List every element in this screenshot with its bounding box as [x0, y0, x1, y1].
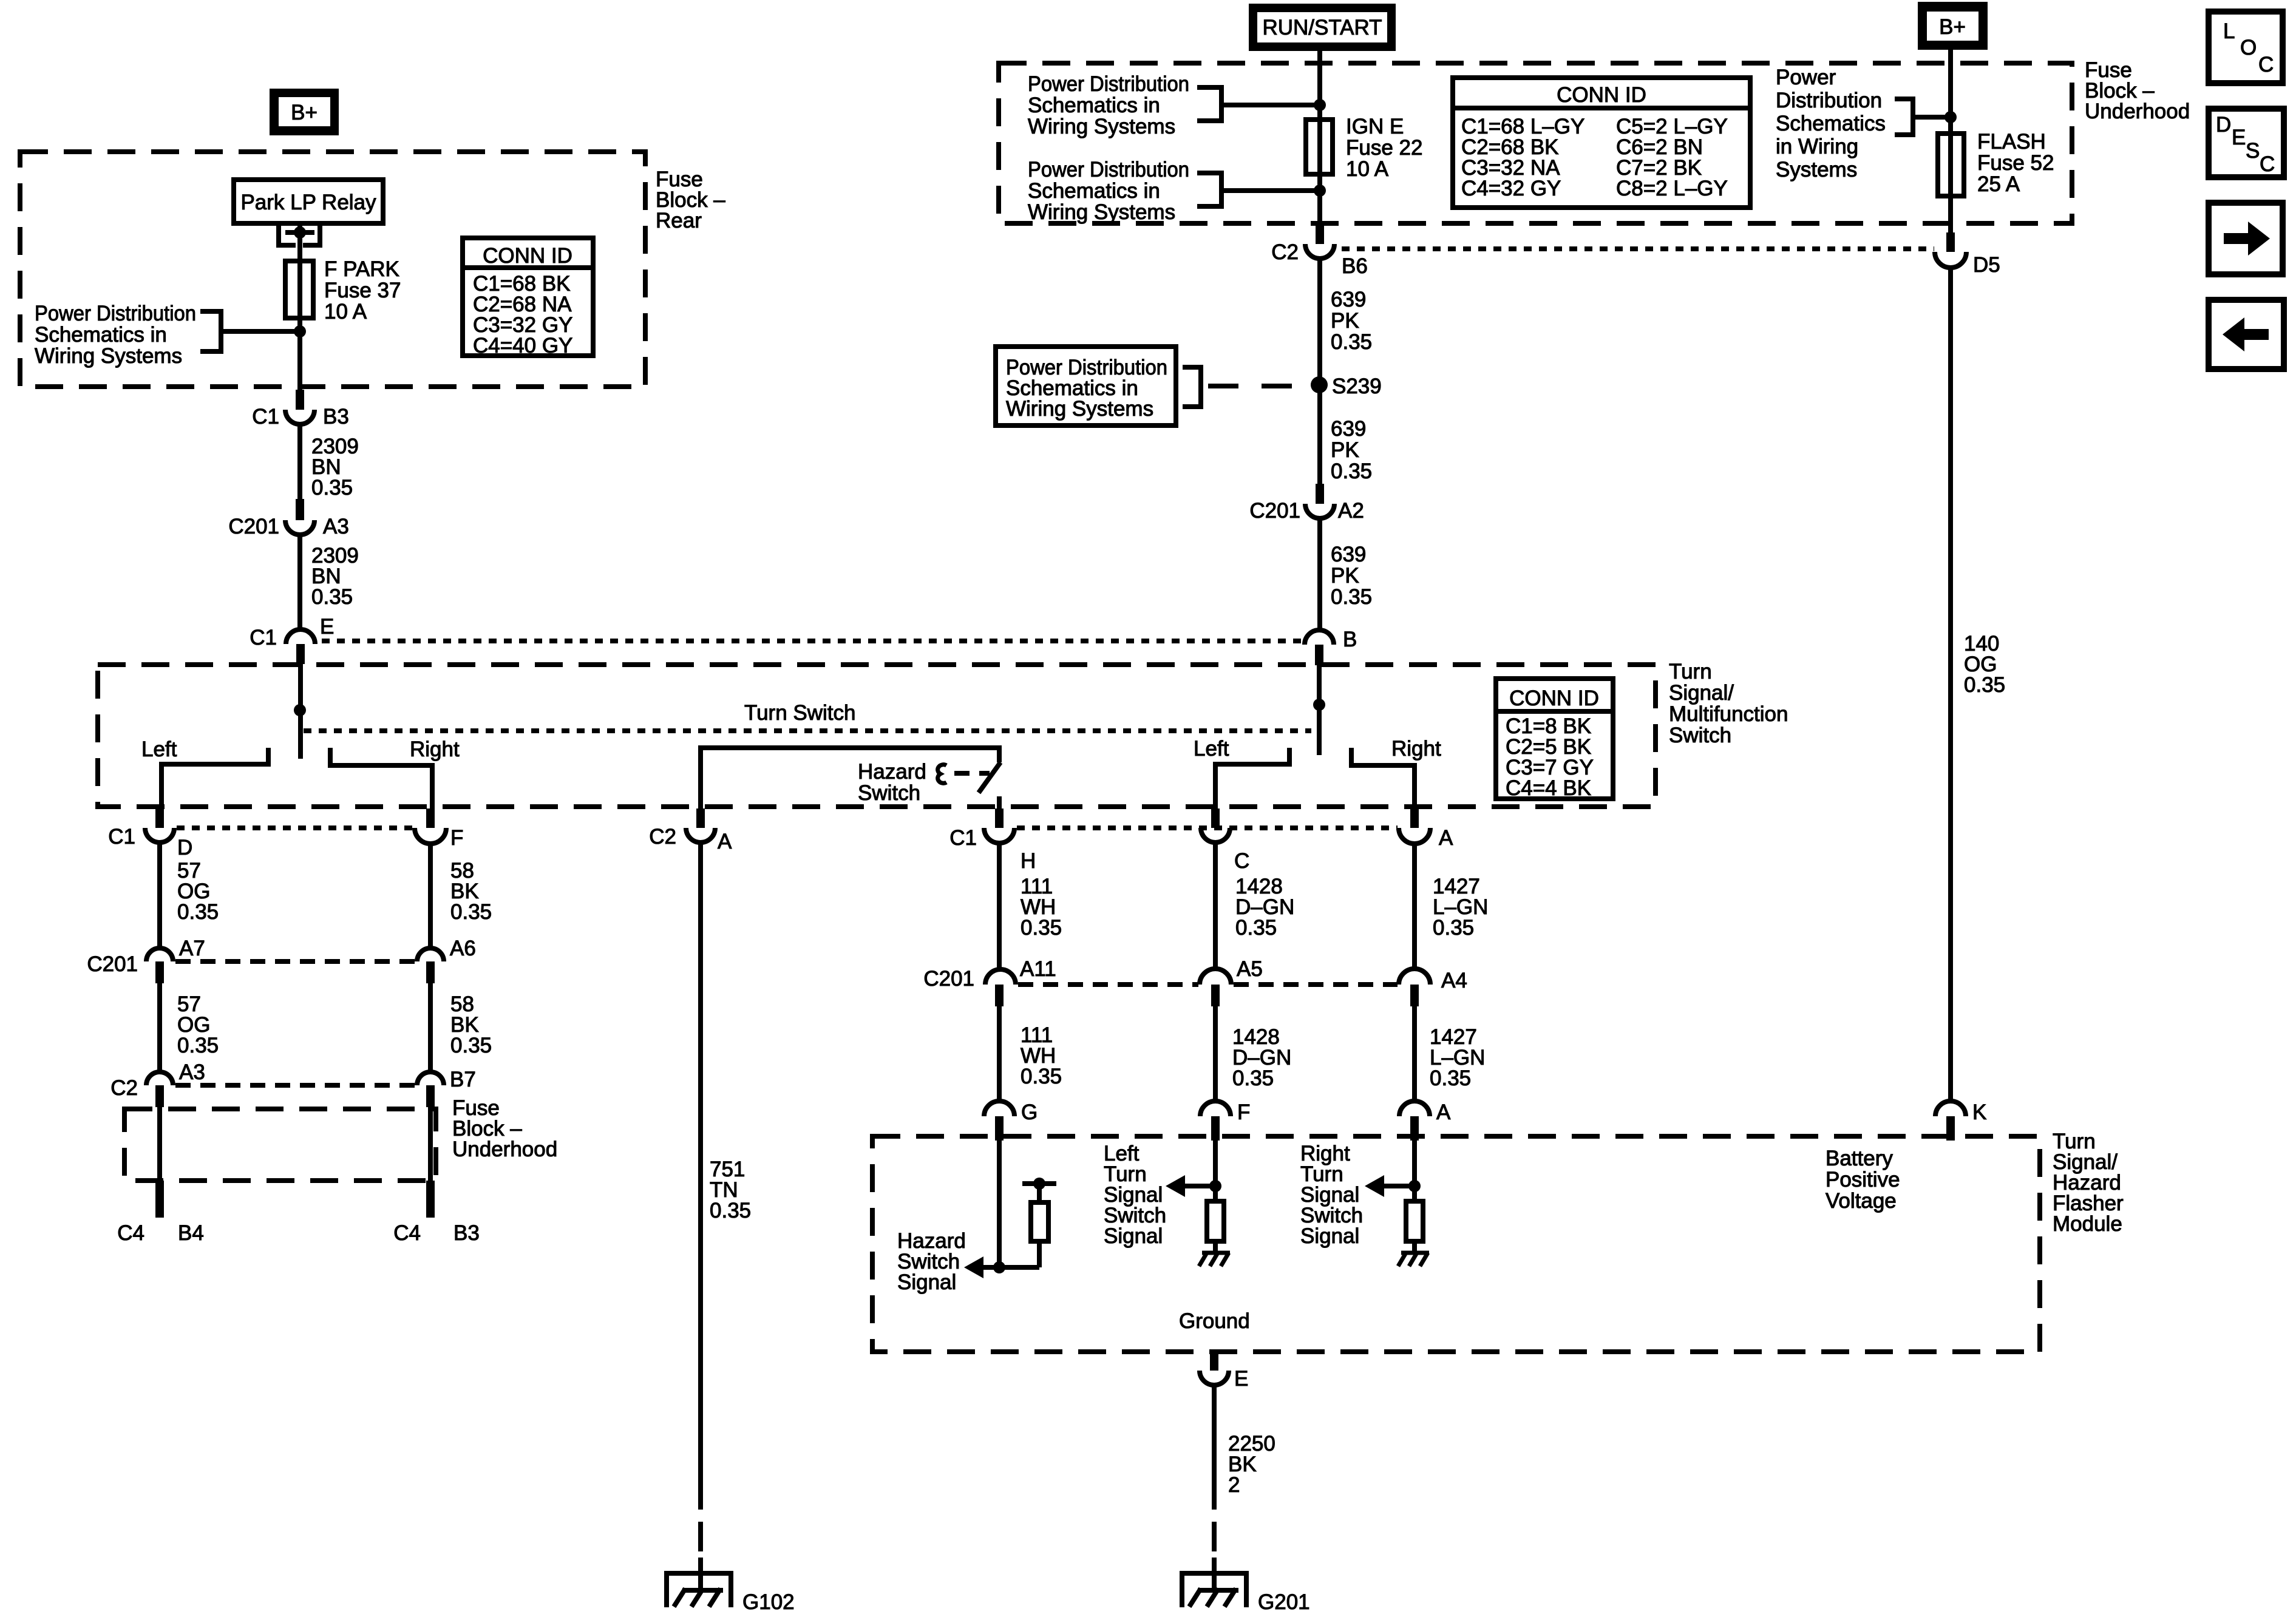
svg-text:Right: Right	[1391, 737, 1441, 761]
ground G102	[667, 1573, 795, 1614]
table CONN ID (fuse block underhood)	[1453, 78, 1750, 208]
svg-text:B3: B3	[323, 405, 349, 429]
svg-text:C8=2 L–GY: C8=2 L–GY	[1616, 177, 1728, 200]
svg-text:0.35: 0.35	[177, 1034, 219, 1057]
svg-text:G201: G201	[1258, 1590, 1310, 1614]
svg-text:Wiring Systems: Wiring Systems	[1006, 397, 1153, 421]
label Battery Positive Voltage	[1826, 1147, 1900, 1213]
dotted H to C to A	[1017, 825, 1398, 830]
svg-text:Turn: Turn	[1669, 660, 1712, 683]
wire RUN/START to fuse	[1317, 51, 1322, 122]
wire A2 to B	[1317, 518, 1322, 630]
svg-text:0.35: 0.35	[1235, 916, 1277, 940]
svg-text:C1: C1	[949, 826, 977, 850]
wire B3 to C201 A3	[297, 424, 302, 500]
svg-text:0.35: 0.35	[450, 1034, 492, 1057]
svg-text:Multifunction: Multifunction	[1669, 702, 1788, 726]
legend box arrow left	[2209, 300, 2284, 369]
arrowhead hazard	[964, 1256, 983, 1278]
fuse block underhood (left small) dashed box	[124, 1109, 436, 1181]
svg-text:B4: B4	[178, 1221, 204, 1245]
wire label 1427 L-GN 0.35 (2)	[1430, 1025, 1485, 1090]
wire F to A6	[428, 844, 433, 948]
label Power Distribution Schematics (rear block)	[35, 302, 196, 368]
connector A (module)	[1399, 1100, 1451, 1141]
wire label 57 OG 0.35 (1)	[177, 859, 219, 924]
connector A5	[1200, 957, 1263, 1006]
wire fuse to connector C1 B3	[297, 318, 302, 392]
svg-text:C1: C1	[250, 626, 277, 649]
svg-text:D: D	[177, 836, 192, 859]
wire bracket to junction	[1913, 115, 1951, 120]
wire A to right-turn node	[1412, 1141, 1417, 1201]
node right turn junction	[1408, 1180, 1421, 1192]
wire label 57 OG 0.35 (2)	[177, 992, 219, 1057]
relay contact symbol	[279, 224, 320, 245]
svg-text:Signal: Signal	[1300, 1224, 1359, 1248]
svg-text:RUN/START: RUN/START	[1262, 16, 1382, 39]
svg-text:D: D	[2216, 113, 2231, 137]
connector B	[1305, 628, 1357, 665]
svg-text:Schematics: Schematics	[1776, 112, 1886, 135]
svg-text:F: F	[1237, 1100, 1250, 1124]
dotted line B6 to D5	[1342, 246, 1934, 251]
turn signal / multifunction switch dashed box	[98, 665, 1656, 807]
svg-text:C1: C1	[108, 825, 135, 849]
svg-text:A7: A7	[179, 937, 205, 960]
relay Park LP Relay	[234, 180, 383, 223]
connector C2 A (hazard)	[649, 808, 732, 853]
connector A6	[417, 937, 476, 983]
wire F to left-turn node	[1213, 1141, 1218, 1201]
arrowhead right turn	[1365, 1175, 1384, 1197]
svg-text:Battery: Battery	[1826, 1147, 1893, 1170]
right turn arrow line	[1384, 1184, 1415, 1188]
svg-text:Left: Left	[141, 737, 177, 761]
svg-text:PK: PK	[1331, 438, 1359, 462]
svg-text:Switch: Switch	[858, 781, 920, 805]
svg-text:639: 639	[1331, 417, 1366, 441]
label Turn Signal/Hazard Flasher Module	[2053, 1130, 2124, 1236]
svg-text:C: C	[2258, 53, 2274, 76]
svg-text:Signal: Signal	[1104, 1224, 1163, 1248]
svg-text:25 A: 25 A	[1977, 172, 2020, 196]
wire label 639 PK 0.35 (1)	[1331, 288, 1372, 354]
ground G201	[1182, 1573, 1310, 1614]
label Power Distribution Schematics (ign)	[1028, 72, 1189, 138]
svg-text:C4: C4	[117, 1221, 144, 1245]
wire label 58 BK 0.35 (2)	[450, 992, 492, 1057]
svg-text:O: O	[2240, 36, 2257, 59]
wire H to A11	[997, 843, 1002, 970]
svg-text:B7: B7	[450, 1068, 476, 1091]
svg-text:CONN ID: CONN ID	[1509, 686, 1599, 710]
ground hash right turn	[1398, 1253, 1429, 1266]
svg-text:Right: Right	[410, 737, 460, 761]
svg-text:Power Distribution: Power Distribution	[35, 302, 196, 325]
connector C2 A3 (left)	[110, 1060, 205, 1107]
svg-text:C: C	[1234, 849, 1249, 873]
svg-text:Schematics in: Schematics in	[1028, 179, 1160, 203]
dotted line E to B	[322, 639, 1304, 643]
svg-text:Systems: Systems	[1776, 158, 1857, 181]
wire A3 to C1 E	[297, 535, 302, 629]
switch 2 left contact	[1215, 748, 1289, 811]
svg-text:Power Distribution: Power Distribution	[1028, 72, 1189, 96]
node switch pole 1 junction	[294, 704, 306, 716]
svg-text:Signal/: Signal/	[1669, 681, 1734, 705]
turn signal / hazard flasher module dashed box	[872, 1136, 2040, 1352]
labels C4 B4	[117, 1221, 204, 1245]
node left turn junction	[1209, 1180, 1221, 1192]
svg-text:A11: A11	[1020, 957, 1056, 981]
wire label 111 WH 0.35 (2)	[1021, 1023, 1062, 1088]
svg-text:0.35: 0.35	[311, 476, 353, 500]
svg-text:B+: B+	[1939, 15, 1966, 39]
svg-text:Fuse 52: Fuse 52	[1977, 151, 2054, 175]
svg-text:C201: C201	[1249, 499, 1300, 523]
power symbol B+ (left)	[270, 89, 339, 135]
linkage dotted pole1 to pole2	[304, 728, 1311, 733]
box Power Distribution Schematics (splice)	[996, 347, 1176, 425]
svg-text:0.35: 0.35	[1331, 585, 1372, 609]
svg-text:Power Distribution: Power Distribution	[1028, 158, 1189, 181]
connector F (module)	[1200, 1100, 1250, 1141]
medium dashed A5 to A4	[1234, 982, 1398, 987]
svg-text:0.35: 0.35	[1021, 916, 1062, 940]
svg-text:PK: PK	[1331, 309, 1359, 333]
svg-text:Fuse 22: Fuse 22	[1346, 136, 1422, 160]
wire A7 to A3	[157, 983, 162, 1072]
wire A6 to B7	[428, 983, 433, 1072]
wire A4 to A	[1412, 1006, 1417, 1102]
node junction at fuse output	[294, 325, 306, 337]
resistor right turn	[1406, 1201, 1423, 1253]
svg-text:639: 639	[1331, 288, 1366, 311]
svg-text:A: A	[1436, 1100, 1451, 1124]
wire label 111 WH 0.35 (1)	[1021, 875, 1062, 940]
pin stub C4 B3	[426, 1181, 435, 1218]
connector C201 A3	[228, 499, 348, 538]
wire A5 to F	[1213, 1006, 1218, 1102]
svg-text:G102: G102	[742, 1590, 795, 1614]
svg-text:C2: C2	[649, 825, 676, 849]
wire bracket1 to wire	[1221, 103, 1320, 107]
node switch pole 2 junction	[1313, 699, 1325, 711]
connector C201 A11	[923, 957, 1056, 1006]
svg-text:C4: C4	[393, 1221, 421, 1245]
power symbol RUN/START	[1249, 4, 1396, 51]
connector C1 H	[949, 808, 1036, 873]
svg-text:C4=4 BK: C4=4 BK	[1506, 776, 1591, 800]
ground hash left turn	[1199, 1253, 1230, 1266]
svg-text:B6: B6	[1342, 254, 1368, 278]
svg-text:A: A	[1439, 826, 1453, 850]
label Turn Signal/Multifunction Switch	[1669, 660, 1788, 747]
labels C4 B3	[393, 1221, 480, 1245]
label Fuse Block Underhood (left)	[452, 1096, 557, 1161]
svg-text:C201: C201	[87, 952, 138, 976]
svg-text:A3: A3	[323, 515, 349, 538]
wire D5 to K	[1948, 268, 1953, 1102]
svg-text:0.35: 0.35	[710, 1199, 751, 1222]
wire relay to fuse	[297, 223, 302, 263]
splice S239	[1311, 376, 1328, 393]
svg-text:C4=32 GY: C4=32 GY	[1461, 177, 1561, 200]
wire hazard feed down (751)	[698, 842, 703, 1510]
svg-text:0.35: 0.35	[1433, 916, 1474, 940]
label Hazard Switch Signal	[897, 1229, 966, 1294]
svg-text:0.35: 0.35	[1232, 1066, 1274, 1090]
medium dashed A7 to A6	[175, 959, 415, 964]
svg-text:10 A: 10 A	[324, 300, 367, 324]
wire fuse to border	[1948, 196, 1953, 232]
connector A (switch right)	[1399, 808, 1453, 850]
arrowhead left turn	[1166, 1175, 1185, 1197]
table CONN ID (switch)	[1496, 679, 1613, 800]
svg-text:C2: C2	[1271, 240, 1299, 264]
fuse FLASH Fuse 52 25A	[1938, 130, 2054, 196]
svg-text:Module: Module	[2053, 1212, 2122, 1236]
wire A3 through fuse block	[157, 1107, 162, 1181]
svg-text:F PARK: F PARK	[324, 257, 399, 281]
svg-text:CONN ID: CONN ID	[483, 244, 572, 268]
svg-text:0.35: 0.35	[450, 900, 492, 924]
connector C1 B3	[252, 390, 349, 429]
hazard switch feed wire	[701, 748, 999, 811]
dashed wire to G102	[698, 1522, 703, 1551]
node junction above flash fuse	[1944, 111, 1957, 123]
fuse block rear dashed box	[20, 152, 645, 387]
svg-text:S239: S239	[1332, 375, 1382, 398]
connector C (switch)	[1201, 808, 1249, 873]
wire label 1428 D-GN 0.35 (2)	[1232, 1025, 1291, 1090]
wire label 639 PK 0.35 (3)	[1331, 543, 1372, 609]
svg-text:C2: C2	[110, 1076, 138, 1100]
svg-text:A4: A4	[1441, 969, 1467, 992]
svg-text:Fuse 37: Fuse 37	[324, 279, 401, 302]
svg-text:Hazard: Hazard	[858, 760, 926, 784]
svg-text:0.35: 0.35	[311, 585, 353, 609]
legend box LOC	[2209, 12, 2283, 83]
fuse block underhood (top) dashed box	[999, 63, 2072, 223]
svg-text:639: 639	[1331, 543, 1366, 566]
label Power Distribution Schematics (ign 2)	[1028, 158, 1189, 224]
svg-text:Turn Switch: Turn Switch	[744, 701, 855, 725]
svg-text:Underhood: Underhood	[2085, 100, 2190, 123]
connector C201 A7	[87, 937, 205, 983]
svg-text:PK: PK	[1331, 564, 1359, 588]
svg-text:FLASH: FLASH	[1977, 130, 2046, 154]
switch 1 right contact	[330, 748, 432, 811]
bracket splice	[1183, 367, 1201, 407]
wire A11 to G	[997, 1006, 1002, 1102]
svg-text:C201: C201	[228, 515, 279, 538]
label Fuse Block Underhood	[2085, 58, 2190, 123]
svg-text:Rear: Rear	[656, 209, 702, 232]
fuse IGN E Fuse 22 10A	[1306, 115, 1422, 181]
svg-text:E: E	[320, 615, 334, 639]
wire bracket2 to wire	[1221, 188, 1320, 193]
connector F (switch)	[415, 808, 463, 850]
hazard linkage dashes	[954, 771, 990, 776]
resistor hazard	[999, 1178, 1056, 1267]
hazard switch fixed contact	[997, 796, 1002, 811]
legend box DESC	[2209, 109, 2284, 177]
medium dashed A3 to B7	[175, 1083, 415, 1088]
connector D5	[1935, 232, 2000, 277]
wire fuse to border	[1317, 174, 1322, 225]
wire B6 to S239	[1317, 259, 1322, 486]
connector A4	[1399, 969, 1467, 1006]
dotted D to F	[177, 825, 413, 830]
wire label 140 OG 0.35	[1964, 632, 2005, 697]
node hazard junction	[993, 1261, 1005, 1273]
svg-text:L: L	[2223, 19, 2235, 43]
wire label 639 PK 0.35 (2)	[1331, 417, 1372, 483]
label Fuse Block Rear	[656, 168, 725, 232]
connector G (module)	[984, 1100, 1038, 1141]
svg-text:E: E	[2232, 126, 2246, 149]
wire bracket to junction	[221, 329, 300, 334]
svg-text:Wiring Systems: Wiring Systems	[35, 344, 182, 368]
hazard switch blade	[979, 762, 1000, 793]
wire B into switch box	[1317, 665, 1322, 755]
svg-text:IGN E: IGN E	[1346, 115, 1404, 138]
svg-text:F: F	[450, 826, 463, 850]
svg-text:Left: Left	[1194, 737, 1229, 761]
svg-text:0.35: 0.35	[1331, 330, 1372, 354]
wire label 1428 D-GN 0.35 (1)	[1235, 875, 1294, 940]
wire C to A5	[1213, 842, 1218, 970]
svg-text:A5: A5	[1237, 957, 1263, 981]
left turn arrow line	[1185, 1184, 1215, 1188]
resistor left turn	[1207, 1201, 1224, 1253]
svg-text:Switch: Switch	[1669, 724, 1731, 747]
svg-text:C1: C1	[252, 405, 279, 429]
svg-text:0.35: 0.35	[177, 900, 219, 924]
svg-text:in Wiring: in Wiring	[1776, 135, 1858, 158]
svg-text:10 A: 10 A	[1346, 157, 1389, 181]
svg-text:Voltage: Voltage	[1826, 1189, 1897, 1213]
svg-text:G: G	[1021, 1100, 1038, 1124]
svg-text:A: A	[718, 830, 732, 853]
dashed wire to G201	[1212, 1522, 1217, 1551]
connector C2 B6	[1271, 225, 1368, 278]
table CONN ID (fuse block rear)	[463, 238, 593, 358]
svg-text:Signal: Signal	[897, 1270, 956, 1294]
wire label 58 BK 0.35 (1)	[450, 859, 492, 924]
wire A to A4	[1412, 844, 1417, 970]
connector C1 D	[108, 808, 192, 859]
wire label 2250 BK 2	[1228, 1432, 1275, 1497]
hazard signal arrow line	[971, 1265, 999, 1270]
legend box arrow right	[2209, 203, 2283, 274]
svg-text:Positive: Positive	[1826, 1168, 1900, 1192]
connector C201 A2	[1249, 484, 1364, 523]
svg-text:A6: A6	[450, 937, 476, 960]
svg-text:0.35: 0.35	[1021, 1065, 1062, 1088]
medium dashed A11 to A5	[1018, 982, 1198, 987]
label Hazard Switch	[858, 760, 926, 805]
svg-text:C4=40 GY: C4=40 GY	[473, 334, 572, 358]
wire label 2309 BN 0.35	[311, 435, 359, 500]
svg-text:0.35: 0.35	[1430, 1066, 1471, 1090]
bracket 1	[1197, 87, 1221, 121]
svg-text:K: K	[1972, 1100, 1986, 1124]
svg-text:H: H	[1021, 849, 1036, 873]
svg-text:Distribution: Distribution	[1776, 89, 1882, 112]
svg-text:A3: A3	[179, 1060, 205, 1084]
wire label 1427 L-GN 0.35 (1)	[1433, 875, 1488, 940]
wire D to A7	[157, 842, 162, 948]
label Power Distribution Schematics (flash)	[1776, 66, 1886, 181]
switch 2 right contact	[1351, 748, 1415, 811]
wire label 751 TN 0.35	[710, 1158, 751, 1222]
node junction above fuse	[1314, 99, 1326, 111]
svg-text:B3: B3	[453, 1221, 480, 1245]
wire E into switch box	[298, 664, 303, 759]
svg-text:0.35: 0.35	[1964, 673, 2005, 697]
bracket 2	[1197, 173, 1221, 206]
hazard switch linkage symbol	[938, 765, 946, 784]
pin stub C4 B4	[155, 1181, 164, 1218]
svg-text:B: B	[1343, 628, 1357, 651]
svg-text:A2: A2	[1338, 499, 1364, 523]
svg-text:C201: C201	[923, 967, 974, 991]
dashed leader to S239	[1208, 384, 1310, 388]
svg-text:Schematics in: Schematics in	[1028, 93, 1160, 117]
svg-text:B+: B+	[291, 101, 318, 124]
connector C1 E	[250, 615, 334, 664]
label Right Turn Signal Switch Signal	[1300, 1142, 1363, 1248]
svg-text:E: E	[1234, 1367, 1248, 1391]
wire E down	[1212, 1385, 1217, 1510]
power symbol B+ (right)	[1918, 2, 1988, 50]
wire G to hazard node	[997, 1141, 1002, 1267]
svg-text:Park LP Relay: Park LP Relay	[240, 191, 376, 214]
wire label 2309 BN 0.35 (second)	[311, 544, 359, 609]
right branch: wire B+ down	[1948, 50, 1953, 136]
svg-text:Underhood: Underhood	[452, 1137, 557, 1161]
fuse F PARK Fuse 37 10A	[285, 257, 401, 324]
svg-text:0.35: 0.35	[1331, 459, 1372, 483]
svg-text:Wiring Systems: Wiring Systems	[1028, 200, 1175, 224]
label Left Turn Signal Switch Signal	[1104, 1142, 1166, 1248]
bracket flash	[1895, 99, 1913, 135]
svg-text:S: S	[2246, 139, 2260, 163]
connector K (module)	[1935, 1100, 1986, 1141]
svg-text:D5: D5	[1973, 253, 2000, 277]
svg-text:Ground: Ground	[1179, 1309, 1250, 1333]
switch 1 left contact	[161, 748, 268, 811]
bracket to power distribution	[200, 311, 221, 351]
svg-text:Schematics in: Schematics in	[35, 323, 167, 347]
svg-text:CONN ID: CONN ID	[1557, 83, 1646, 107]
connector B7	[417, 1068, 476, 1107]
node junction below fuse	[1314, 185, 1326, 197]
svg-text:Wiring Systems: Wiring Systems	[1028, 115, 1175, 138]
svg-text:C: C	[2260, 152, 2275, 176]
wire B7 through fuse block	[428, 1107, 433, 1181]
connector E (module ground)	[1200, 1352, 1248, 1391]
svg-text:2: 2	[1228, 1473, 1240, 1497]
svg-text:Power: Power	[1776, 66, 1836, 89]
